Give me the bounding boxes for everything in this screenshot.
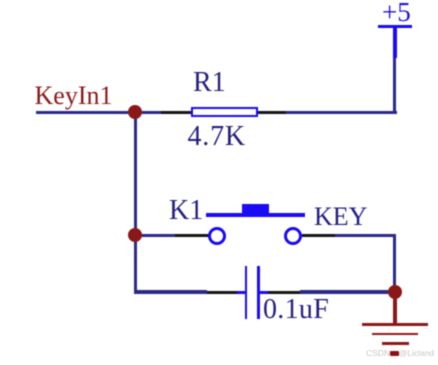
switch K1 actuator bump (242, 204, 270, 213)
capacitor C pin 2 stub (blue) (260, 291, 268, 294)
switch K1 left contact circle (208, 227, 226, 245)
capacitor C pin 1 (left, black) (207, 291, 238, 294)
capacitor C right plate (257, 266, 260, 319)
capacitor C value label 0.1uF (263, 296, 329, 324)
switch K1 designator label (169, 197, 203, 225)
ground stub (vertical) (393, 292, 397, 325)
junction node A (KeyIn1 / resistor / button column) (128, 105, 142, 119)
wire resistor to power corner (horizontal, right) (286, 111, 397, 114)
switch K1 pin 1 (left, black) (175, 234, 209, 237)
resistor R1 pin 1 (left, black) (161, 111, 192, 114)
resistor R1 body (191, 107, 258, 117)
resistor R1 value label 4.7K (188, 123, 246, 151)
ground bar 2 (372, 333, 418, 336)
net label KEY (314, 204, 367, 230)
capacitor C pin 2 (right, black) (268, 291, 300, 294)
net label KeyIn1 (35, 83, 113, 109)
wire node B to switch pin (horizontal) (135, 234, 175, 237)
power +5 label (382, 0, 411, 26)
switch K1 right contact circle (284, 227, 302, 245)
power +5 bar (378, 25, 412, 28)
wire node B down to bottom corner (vertical) (134, 235, 137, 294)
resistor R1 pin 2 (right, black) (258, 111, 287, 114)
wire power stub to top-right corner (vertical) (393, 58, 396, 114)
wire bottom corner to capacitor (horizontal) (135, 290, 207, 293)
watermark CSDN @Licland (366, 349, 434, 358)
wire right vertical (corner down to node C) (393, 234, 396, 294)
switch K1 bar (206, 213, 305, 218)
wire switch to right corner (horizontal) (335, 234, 396, 237)
resistor R1 designator label (193, 69, 226, 97)
wire capacitor to node C (horizontal) (300, 290, 395, 293)
switch K1 pin 2 (right, black) (302, 234, 335, 237)
ground bar 3 (382, 342, 409, 345)
junction node B (button row) (128, 228, 142, 242)
capacitor C pin 1 stub (blue) (237, 291, 245, 294)
power +5 stub (393, 26, 396, 58)
wire node A down to node B (vertical, left) (134, 111, 137, 294)
capacitor C left plate (245, 266, 248, 319)
ground bar 1 (362, 323, 428, 326)
junction node C (capacitor / ground) (388, 285, 402, 299)
wire KeyIn1 to resistor (horizontal, left) (36, 111, 162, 114)
